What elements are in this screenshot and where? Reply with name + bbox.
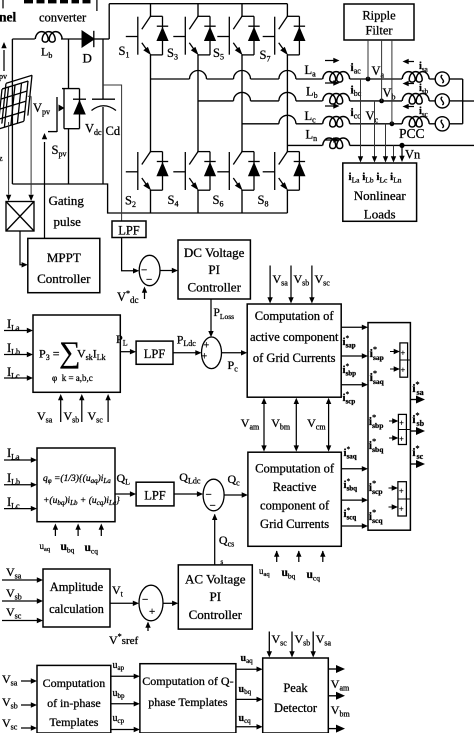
svg-text:+: + [399,505,404,514]
diode D [82,31,94,47]
label Spv [52,143,67,159]
arrow ibc [325,80,340,85]
label Vbm [271,416,291,432]
Amplitude calculation box [43,569,110,627]
arrow into adder2 bottom [389,435,398,440]
text PV panel (cut "nel") [0,10,17,25]
arrow out Vbm [328,692,345,700]
Computation of in-phase Templates box [37,665,111,733]
label i*sa [412,380,423,397]
svg-text:Computation of Q-: Computation of Q- [142,674,233,688]
label i*scq (out) [344,507,357,522]
label uaq (reactive) [259,566,270,578]
label Vsc (peak) [272,632,288,648]
inductor Lc2 [323,116,350,127]
label Vpv [33,101,50,117]
arrow Q to LPF [115,491,136,496]
label uap [113,660,125,672]
wire load line c [383,124,388,163]
Ripple Filter box [344,4,414,40]
inductor Lsa [402,72,429,83]
arrow Vsa into active box [267,266,272,304]
svg-text:Amplitude: Amplitude [50,580,104,594]
label i*sbq (out) [344,478,358,493]
wire gating pulse to Spv gate [42,133,47,238]
label V*dc [117,289,139,305]
text converter [39,11,87,25]
inductor Lsb [402,94,429,105]
label i*sbp (out) [343,363,357,378]
wire boost left [11,39,13,184]
arrow into adder2 top [389,418,398,423]
label Vsb (active) [294,272,310,288]
wire ripple filter to Va [367,40,369,79]
wire ripple filter to Vb [381,40,383,101]
AC Voltage PI Controller box [178,565,252,629]
svg-text:nel: nel [0,10,17,25]
wire P Loss [208,299,213,337]
arrow Vsc into amp [2,618,43,623]
AC source a [435,72,449,86]
svg-text:of Grid Currents: of Grid Currents [253,351,336,365]
arrow Vsa into inphase [21,678,37,683]
wire source bus [463,79,474,124]
label Vsc (amp) [6,605,22,621]
arrow isa [403,59,415,64]
arrow ucq into reactive box [320,551,325,563]
arrow Vsa into peak [311,632,316,658]
wire Qcs [212,514,217,565]
wire LPF to summing junction [122,238,140,274]
inductor Ln2 [323,138,350,149]
label i*sap (out) [343,335,356,350]
svg-text:pv: pv [0,72,7,81]
arrow i*saq to adder box [341,466,368,471]
svg-text:Controller: Controller [189,607,243,622]
arrow LPF to Q junction [174,491,203,496]
arrow Vsb into inphase [21,702,37,707]
arrow ubq into reactive box [296,551,301,563]
adder 2 [398,414,410,444]
AC source c [435,117,449,131]
label PLdc [177,333,197,349]
svg-text:+: + [204,341,210,352]
arrow junction to DC PI box [160,268,178,273]
label ucq (Q) [85,542,99,556]
Computation of Reactive component box [248,452,341,546]
label Vsc (active) [315,272,331,288]
capacitor Cd [92,39,117,184]
label i*sbq (in) [369,437,384,454]
Q computation block [37,448,120,522]
text Gating pulse [49,193,85,229]
label uaq (Q) [40,541,51,553]
svg-text:Peak: Peak [283,681,308,695]
arrow amp to AC junction [110,601,139,606]
label i*saq (in) [370,369,385,386]
label S2 [125,194,136,210]
Peak Detector box [263,658,329,733]
double arrow Vcm [326,398,331,452]
label uaq (peak) [241,653,254,665]
svg-text:PCC: PCC [399,126,425,141]
label Pc [228,358,239,374]
arrow ucq to peak [236,724,263,729]
svg-text:+: + [149,606,155,618]
arrow out i*sa [410,396,425,404]
svg-text:active component: active component [250,330,339,344]
label S8 [258,193,269,209]
arrow Q junction to reactive box [224,492,248,497]
svg-text:DC Voltage: DC Voltage [184,245,245,260]
transistor S6 [217,151,260,191]
arrow ucq into Q bottom [99,524,104,537]
label V*sref [109,632,138,647]
label ubp [113,688,126,700]
label ubq (reactive) [282,567,296,581]
label Vsc (inphase) [2,716,18,732]
node PCC [399,143,404,148]
wire load line a [358,79,363,163]
svg-text:+: + [399,487,404,496]
transistor S1 [126,16,169,56]
svg-text:Grid Currents: Grid Currents [260,517,329,531]
top cut text "Boost DC-DC" [24,0,91,3]
leg 2 wire [197,4,199,213]
label i*scp (out) [343,391,356,406]
leg 4 wire [286,4,288,213]
label Vcm [307,416,326,432]
label Vt [112,583,124,599]
svg-text:Gating: Gating [49,193,85,208]
label Lb [41,45,52,61]
arrow out Vam [328,665,345,673]
DC Voltage PI Controller box [178,240,250,299]
summing junction P [202,337,222,369]
arrow Vsc into peak [267,632,272,658]
arrow iac [325,58,340,63]
svg-text:+: + [399,419,404,428]
arrow into adder3 top [389,485,398,490]
label Vsb (amp) [6,586,22,602]
current summation tall box [368,323,410,531]
svg-text:MPPT: MPPT [47,250,81,265]
label Cd [106,124,121,138]
label D [83,51,92,66]
arrow Vsa into P3 bottom [58,394,63,422]
label i*sb [412,411,424,428]
arrow Vsb into P3 bottom [79,394,84,422]
arrow i*scq to adder box [341,523,368,528]
label S4 [168,193,179,209]
svg-text:+: + [401,366,406,375]
leg 3 wire [241,4,243,213]
transistor S5 [217,16,260,56]
svg-text:Computation: Computation [43,676,106,690]
svg-text:PI: PI [210,589,222,604]
svg-text:z: z [0,154,3,163]
summing junction Vdc [139,255,160,286]
LPF box (Q) [136,482,174,506]
arrow ILa into Q [4,457,37,462]
label Qcs [219,533,234,549]
MOSFET Spv [48,39,80,184]
wire load line n [391,145,396,162]
label Vsb (peak) [295,632,311,648]
svg-text:Nonlinear: Nonlinear [354,188,407,203]
arrow in [325,137,340,142]
arrow V*sref into junction [145,622,150,632]
label ucq (peak) [239,713,252,725]
wire phase c line [242,115,463,124]
arrow Vpv left (cut) [0,0,97,81]
svg-text:D: D [83,51,92,66]
label ILa (P3) [7,317,20,333]
wire neutral line [287,144,474,146]
inductor Lsc [402,116,429,127]
Computation of Q-phase Templates box [140,664,236,733]
transistor S2 [126,151,169,191]
svg-text:+: + [399,435,404,444]
label i*sap (in) [370,345,384,362]
svg-text:calculation: calculation [49,602,105,616]
svg-text:component of: component of [260,499,330,513]
label La [305,63,317,79]
label s fragment [221,558,224,566]
svg-text:Controller: Controller [37,271,91,286]
label ubq (Q) [61,541,75,555]
inductor Lb2 [323,94,350,105]
label Vb [383,86,396,102]
arrow ubp to Q-phase box [111,701,140,706]
transistor S4 [173,151,216,191]
label Vsa (active) [273,272,289,288]
label ILb (P3) [7,341,20,357]
arrow uaq into Q bottom [53,524,58,537]
svg-text:+: + [401,349,406,358]
label Vam (peak) [331,677,350,693]
arrow P junction to active box [222,350,248,355]
arrow ILb into P3 [4,352,33,357]
summing junction AC [139,585,163,621]
label Lb [306,85,318,101]
inductor La [323,72,350,83]
label Vbm (peak) [331,703,351,719]
arrow out i*sc [410,460,425,468]
label Qc [228,472,241,488]
label Vam [241,416,260,432]
inductor Lb [35,32,62,43]
arrow Vn [399,145,404,162]
left edge fragment [0,154,3,163]
label ILc (Q) [7,495,20,511]
transistor S8 [263,151,306,191]
label i*scp (in) [369,479,383,496]
svg-text:+: + [202,352,208,363]
label S7 [260,48,271,64]
label Vsa (inphase) [2,672,18,688]
svg-text:φ k = a,b,c: φ k = a,b,c [52,373,93,383]
svg-text:Vn: Vn [405,148,421,162]
label Ln [306,128,318,144]
svg-text:pulse: pulse [54,214,82,229]
arrow i*sap to adder box [341,325,368,330]
label Vsa (amp) [6,565,22,581]
arrow Vsb into peak [289,632,294,658]
arrow out i*sb [410,427,425,435]
node Vc [390,121,395,126]
arrow isc [403,104,415,109]
svg-text:Controller: Controller [187,280,241,295]
svg-text:Cd: Cd [106,124,121,138]
double arrow Vbm [294,398,299,452]
transistor S7 [263,16,306,56]
arrow Vsb into amp [2,598,43,603]
label i*saq (out) [344,446,357,461]
arrow ubq into Q bottom [75,524,80,537]
svg-text:Reactive: Reactive [273,480,317,494]
label Lc [305,109,317,125]
PV panel [0,75,32,129]
leg 1 wire [150,4,152,213]
label P Loss [214,307,235,321]
label S6 [213,193,224,209]
inverter DC+ rail [109,3,287,5]
svg-text:+(ubq)iLb + (ucq)iLc}: +(ubq)iLb + (ucq)iLc} [43,495,120,507]
label S1 [119,44,130,60]
svg-text:AC Voltage: AC Voltage [185,572,246,587]
LPF box (P) [136,341,173,364]
svg-text:PI: PI [208,262,220,277]
label Vsb (inphase) [2,695,18,711]
wire ripple filter to Vc [391,40,393,124]
label ucq (reactive) [307,569,321,583]
double arrow Vam [261,398,266,452]
wire Vpv sense arrows to gating block [6,96,34,201]
arrow icc [325,103,340,108]
arrow P3 to LPF [120,349,136,354]
wire boost top rail [12,4,109,39]
svg-text:−: − [210,500,216,512]
arrow Vsa into amp [2,577,43,582]
wire phase a line [151,71,463,80]
svg-text:qφ =(1/3){(uaq)iLa: qφ =(1/3){(uaq)iLa [43,473,111,485]
svg-text:LPF: LPF [144,489,166,503]
svg-text:Ripple: Ripple [362,9,396,23]
label Vsa (peak) [316,632,332,648]
Computation of active component box [247,304,341,397]
svg-text:−: − [146,274,152,286]
svg-text:LPF: LPF [144,347,166,361]
label icc [351,107,362,121]
label QL [117,471,131,487]
label Vn [405,148,421,162]
LPF box (Vdc) [112,221,146,238]
node Vb [379,99,384,104]
arrow ubq to peak [236,697,263,702]
MOSFET body diode [73,89,86,129]
wire Vdc sense to LPF [103,85,122,221]
P3 computation block [33,315,120,392]
svg-text:P3 =: P3 = [39,347,60,363]
label ucp [113,713,125,725]
AC source b [435,94,449,108]
label Vsa (P3) [37,409,53,425]
arrow ILc into Q [4,506,37,511]
svg-text:LPF: LPF [118,224,140,238]
adder 3 [398,482,411,516]
svg-text:−: − [142,594,148,606]
label S5 [213,46,224,62]
label Vsb (P3) [64,409,80,425]
label isa [419,61,429,74]
svg-text:Computation of: Computation of [255,309,335,323]
arrow into adder1 top [390,349,400,354]
label i*sc [412,444,423,461]
svg-text:Detector: Detector [274,701,318,715]
label S3 [167,46,178,62]
arrow ILc into P3 [4,375,33,380]
label ubq (peak) [239,684,252,696]
arrow isb [403,81,415,86]
arrow i*scp to adder box [341,382,368,387]
label ILc (P3) [7,365,20,381]
arrow Vsb into active box [288,266,293,304]
arrow Vsc into active box [309,266,314,304]
label PL [116,332,128,348]
svg-text:Computation of: Computation of [255,462,335,476]
adder 1 [400,343,411,377]
wire X box to MPPT [20,231,28,267]
arrow uap to Q-phase box [111,674,140,679]
svg-text:V*sref: V*sref [109,632,138,647]
svg-text:Loads: Loads [364,207,396,222]
arrow out Vcm [328,725,345,733]
wire phase b line [198,92,463,101]
label Va [372,64,385,80]
svg-text:of in-phase: of in-phase [47,696,101,710]
label ibc [351,85,362,99]
arrow LPF to P junction [173,350,202,355]
arrow into adder1 bottom [390,366,400,371]
label Vdc [85,122,102,138]
arrow into adder3 bottom [389,504,398,509]
arrow Vsc into inphase [21,725,37,730]
label i*scq (in) [369,508,384,525]
arrow i*sbq to adder box [341,497,368,502]
label Vsc (P3) [88,409,104,425]
label Vc [366,109,379,125]
svg-text:phase Templates: phase Templates [148,695,228,709]
arrow uaq to peak [236,667,263,672]
arrow ucp to Q-phase box [111,727,140,732]
arrow uaq into reactive box [274,551,279,563]
Nonlinear Loads box [343,163,417,222]
svg-text:converter: converter [39,11,87,25]
arrow ILa into P3 [4,328,33,333]
arrow Vsc into P3 bottom [105,394,110,422]
MPPT Controller box [28,238,100,292]
node Va [366,77,371,82]
svg-text:Templates: Templates [49,715,98,729]
arrow AC junction to AC PI box [163,601,178,606]
arrow ILb into Q [4,482,37,487]
gating driver block (X box) [6,202,34,232]
svg-text:Filter: Filter [365,24,393,38]
label isb [419,83,429,96]
wire load line b [372,101,377,163]
label i*sbp (in) [369,413,384,430]
